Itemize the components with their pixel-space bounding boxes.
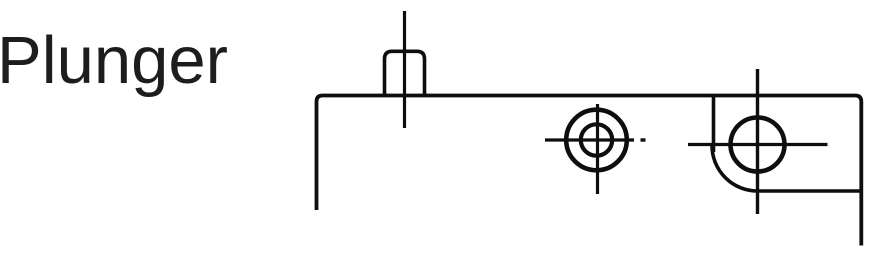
svg-text:Plunger: Plunger — [0, 23, 228, 98]
